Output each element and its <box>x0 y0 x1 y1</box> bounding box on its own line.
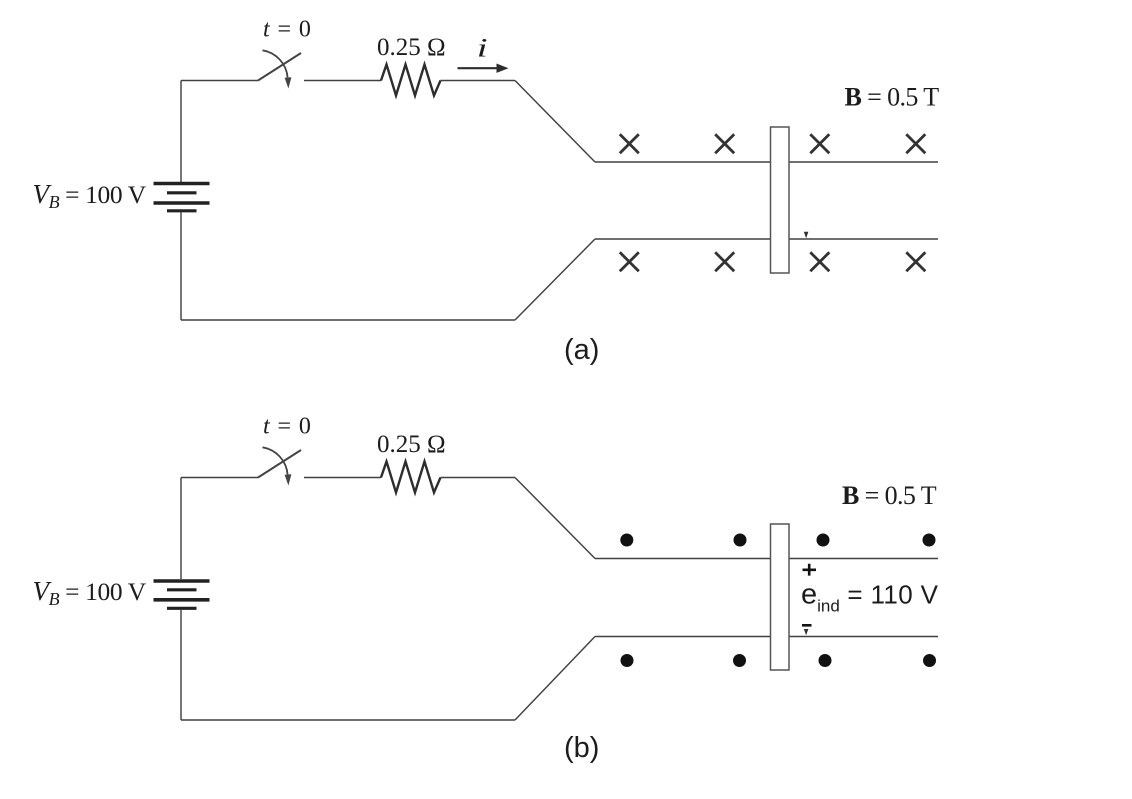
svg-text:eind = 110 V: eind = 110 V <box>801 579 939 616</box>
tick mark on bottom rail (b) <box>804 629 809 635</box>
flux dot b-top-3 <box>817 534 830 547</box>
flux cross a-bot-3 <box>810 252 829 271</box>
svg-text:VB = 100 V: VB = 100 V <box>33 576 147 609</box>
switch S (t=0) blade (a) <box>258 53 301 81</box>
resistor R 0.25 ohm (b) <box>381 462 441 493</box>
flux dot b-bot-3 <box>819 654 832 667</box>
svg-text:0.25 Ω: 0.25 Ω <box>377 431 446 458</box>
wire bottom return (a) <box>181 319 515 321</box>
flux dot b-bot-4 <box>923 654 936 667</box>
flux cross a-bot-4 <box>906 252 925 271</box>
wire top taper diagonal (a) <box>515 81 595 163</box>
wire switch to resistor (a) <box>304 80 381 82</box>
resistor R 0.25 ohm (a) <box>381 65 441 96</box>
wire bottom taper diagonal (a) <box>515 239 595 320</box>
wire switch to resistor (b) <box>304 477 381 479</box>
svg-text:B = 0.5 T: B = 0.5 T <box>842 481 937 510</box>
svg-text:0.25 Ω: 0.25 Ω <box>377 34 446 61</box>
wire battery bottom lead (b) <box>180 610 182 720</box>
tick mark on bottom rail (a) <box>804 232 809 239</box>
svg-text:i: i <box>477 34 488 63</box>
flux cross a-top-3 <box>810 134 829 153</box>
wire resistor to bend (b) <box>441 477 516 479</box>
wire battery bottom lead (a) <box>180 213 182 321</box>
svg-text:t = 0: t = 0 <box>263 17 312 43</box>
wire resistor to bend (a) <box>441 80 516 82</box>
current arrow i (a) <box>458 64 509 73</box>
flux cross a-top-2 <box>715 134 734 153</box>
polarity minus of e_ind (b) <box>802 624 812 627</box>
flux dot b-top-1 <box>620 534 633 547</box>
wire bottom taper diagonal (b) <box>515 637 595 721</box>
wire bottom rail (b) <box>595 636 938 638</box>
flux dot b-bot-1 <box>621 654 634 667</box>
flux dot b-top-2 <box>734 534 747 547</box>
switch closing arc with arrowhead (b) <box>263 447 292 485</box>
wire battery top lead (b) <box>180 478 182 580</box>
flux cross a-top-4 <box>906 134 925 153</box>
wire top: battery to switch (b) <box>181 477 258 479</box>
switch S (t=0) blade (b) <box>258 450 301 478</box>
svg-text:B = 0.5 T: B = 0.5 T <box>845 83 940 112</box>
wire bottom rail (a) <box>595 238 938 240</box>
battery VB plates (a) <box>154 184 210 211</box>
sliding bar (b) <box>771 524 790 670</box>
flux dot b-bot-2 <box>733 654 746 667</box>
flux cross a-bot-1 <box>620 252 639 271</box>
switch closing arc with arrowhead (a) <box>263 50 292 88</box>
svg-text:t = 0: t = 0 <box>263 414 312 440</box>
sliding bar (a) <box>771 127 790 273</box>
wire top rail (a) <box>595 161 938 163</box>
wire bottom return (b) <box>181 719 515 721</box>
svg-text:(b): (b) <box>564 732 599 764</box>
wire top taper diagonal (b) <box>515 478 595 559</box>
flux cross a-bot-2 <box>715 252 734 271</box>
wire top rail (b) <box>595 558 938 560</box>
polarity plus of e_ind (b) <box>803 564 817 576</box>
wire battery top lead (a) <box>180 81 182 183</box>
battery VB plates (b) <box>154 581 210 608</box>
flux cross a-top-1 <box>620 134 639 153</box>
svg-text:(a): (a) <box>564 334 599 366</box>
wire top: battery to switch (a) <box>181 80 258 82</box>
flux dot b-top-4 <box>923 534 936 547</box>
svg-text:VB = 100 V: VB = 100 V <box>33 179 147 212</box>
